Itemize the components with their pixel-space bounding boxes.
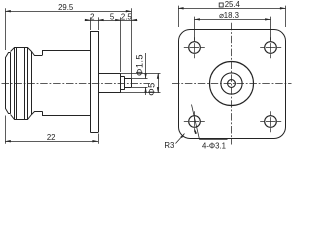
svg-text:⌀18.3: ⌀18.3 <box>219 11 239 20</box>
svg-text:25.4: 25.4 <box>225 0 241 9</box>
svg-text:Φ1.5: Φ1.5 <box>134 54 144 76</box>
svg-text:R3: R3 <box>164 141 174 150</box>
svg-text:2: 2 <box>90 12 94 21</box>
svg-text:4-Φ3.1: 4-Φ3.1 <box>202 142 226 151</box>
svg-text:22: 22 <box>47 133 56 142</box>
svg-text:2.5: 2.5 <box>121 12 133 21</box>
svg-text:5: 5 <box>110 12 115 21</box>
svg-text:29.5: 29.5 <box>58 3 74 12</box>
svg-text:Φ5: Φ5 <box>146 82 156 95</box>
